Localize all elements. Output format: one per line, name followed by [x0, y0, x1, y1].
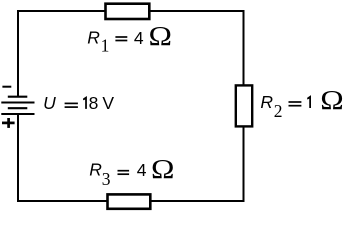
svg-text:Ω: Ω — [320, 86, 343, 115]
svg-text:4: 4 — [134, 28, 144, 48]
svg-text:Ω: Ω — [149, 22, 172, 51]
svg-text:1: 1 — [101, 36, 110, 56]
svg-text:V: V — [102, 93, 114, 113]
svg-text:2: 2 — [274, 101, 283, 121]
svg-text:R: R — [260, 92, 273, 112]
svg-text:R: R — [89, 159, 102, 179]
svg-text:3: 3 — [102, 169, 111, 189]
svg-text:R: R — [87, 27, 100, 47]
svg-text:U: U — [43, 93, 56, 113]
svg-text:4: 4 — [137, 160, 147, 180]
svg-text:Ω: Ω — [151, 155, 174, 184]
svg-text:8: 8 — [89, 93, 99, 113]
